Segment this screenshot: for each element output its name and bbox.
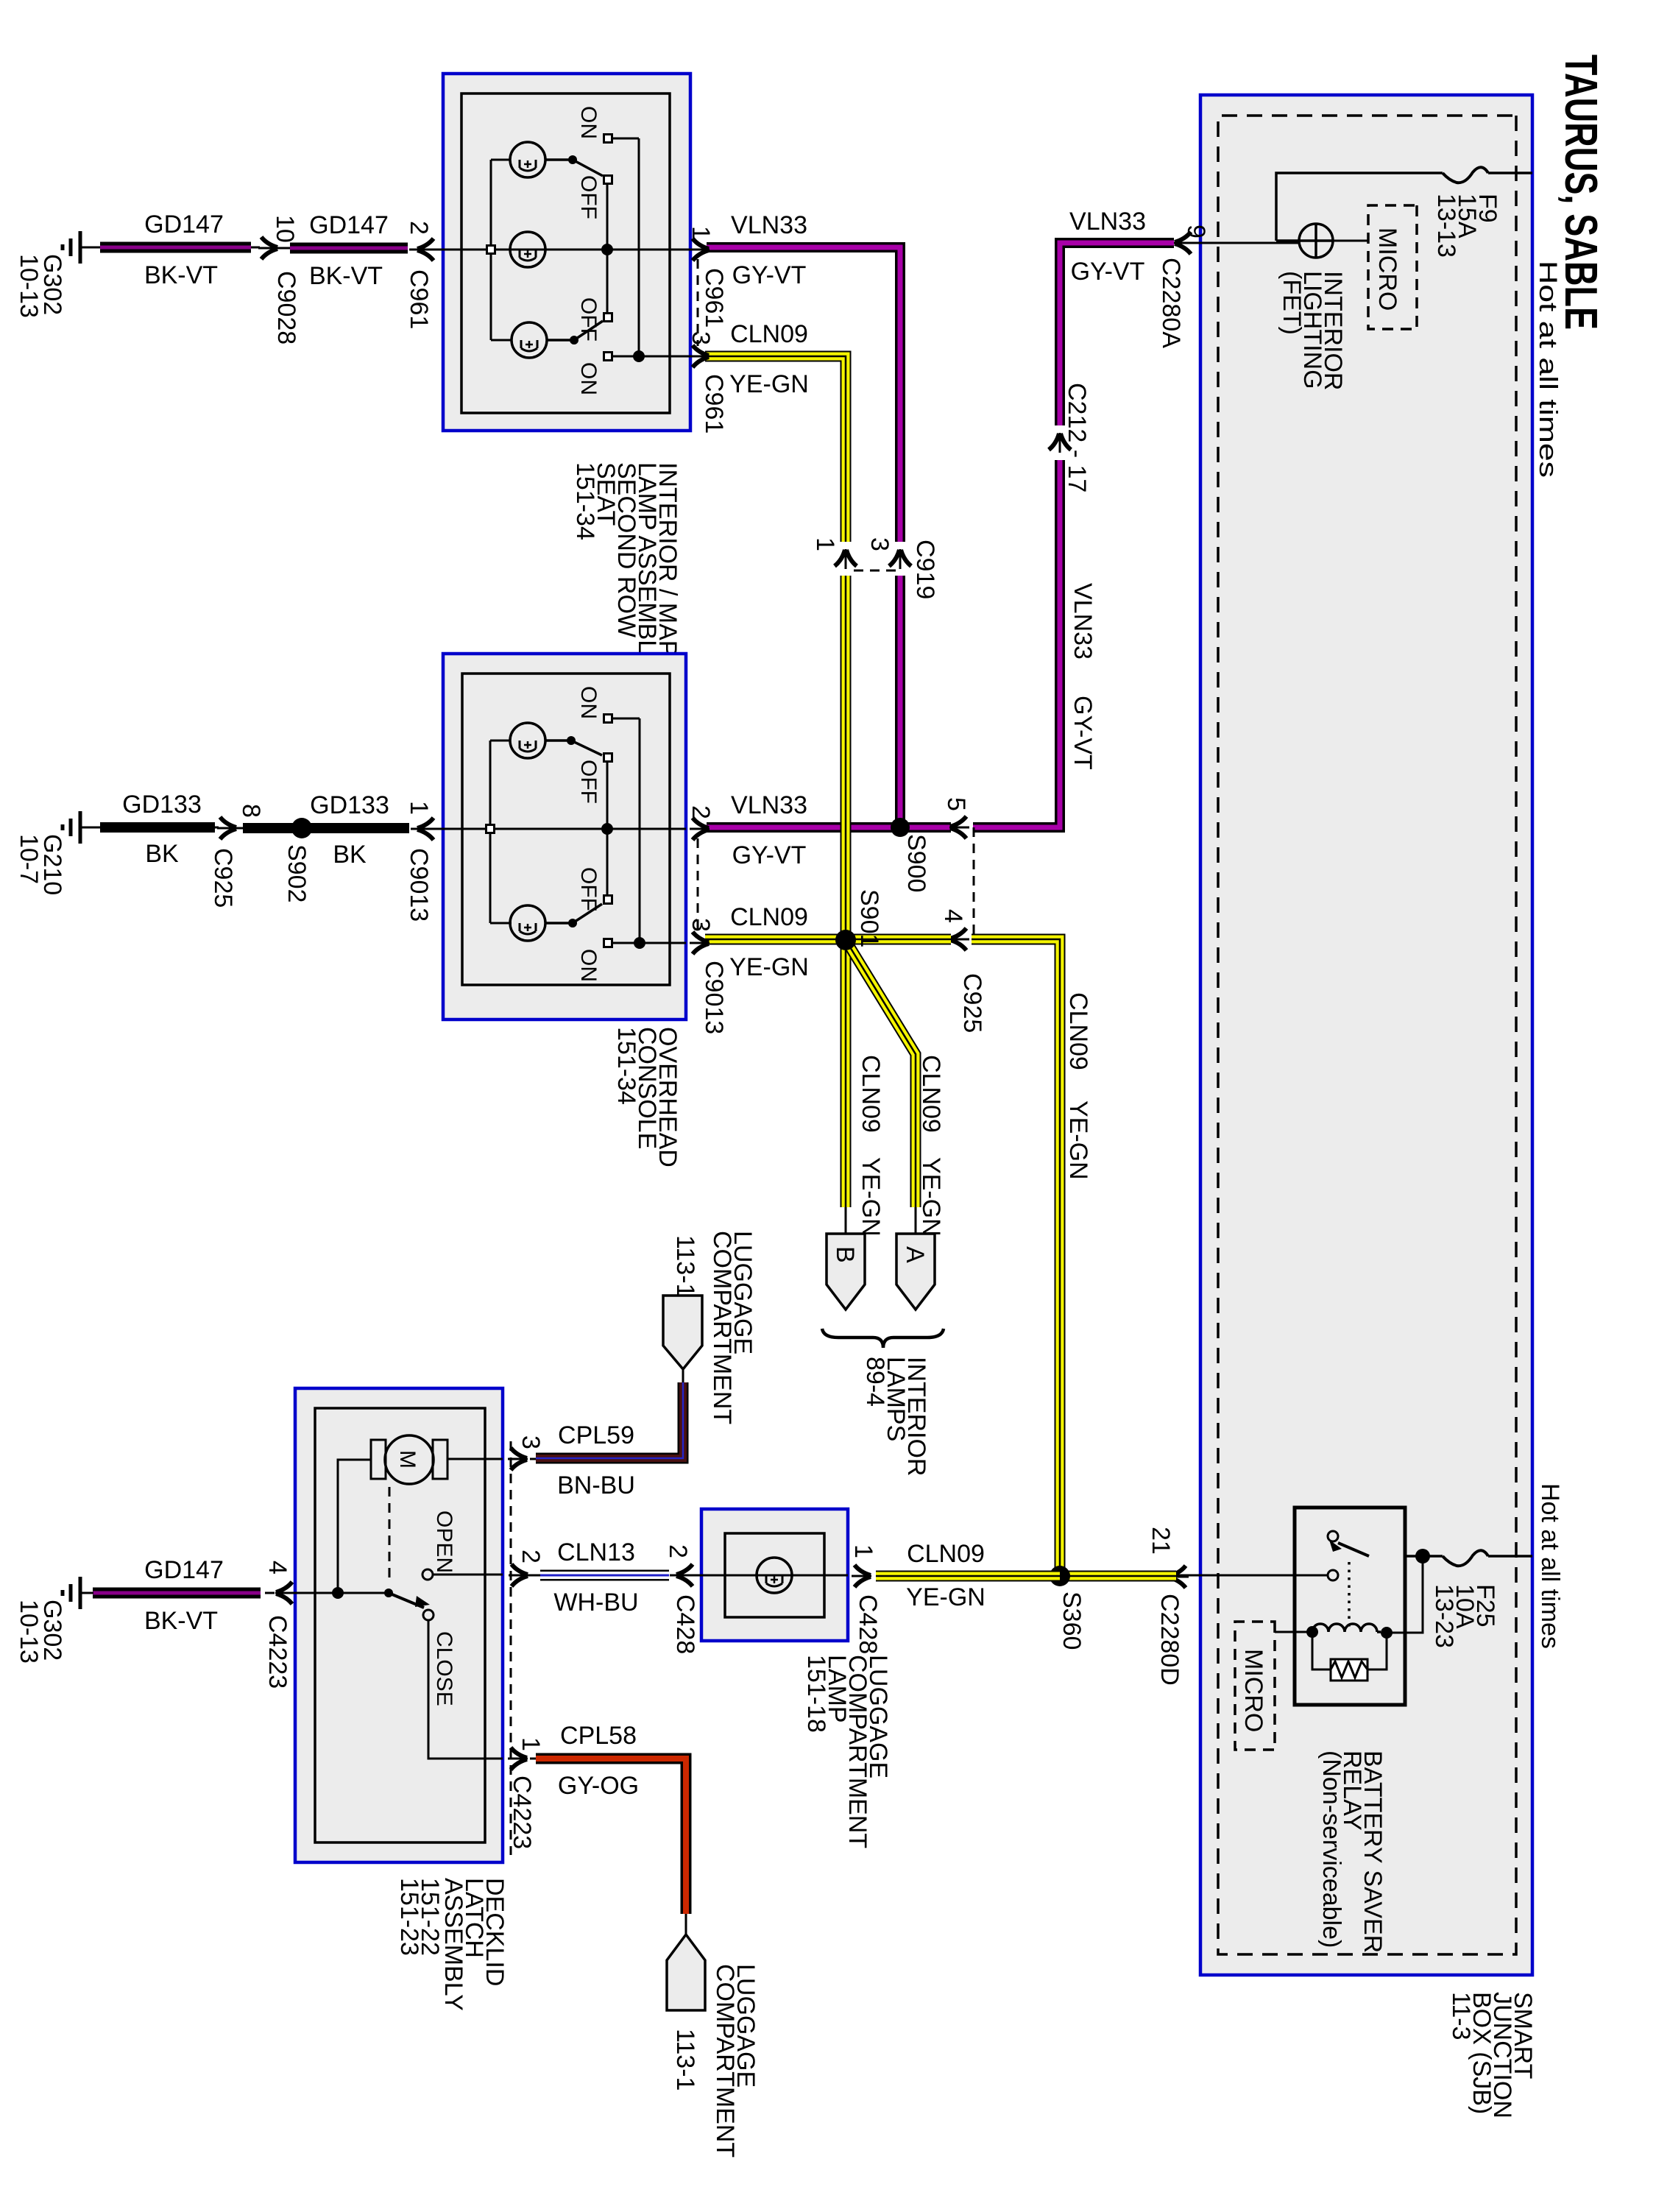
wire console off row [606,762,609,895]
fuse F9 element [1443,167,1488,183]
node pin3 bus dot [633,350,645,362]
wire CLN13 WH-BU luggage lamp to decklid [670,1575,701,1577]
wire relay output down to pin 21 [1176,1575,1328,1577]
svg-text:CPL59: CPL59 [558,1421,634,1449]
svg-text:9: 9 [1182,225,1210,238]
wire fuse junction to coil [1392,1556,1423,1633]
svg-text:MICRO: MICRO [1239,1649,1267,1732]
svg-text:GY-VT: GY-VT [732,261,807,289]
connector C9013 dashed link [697,838,699,933]
svg-text:CLN09: CLN09 [907,1540,985,1568]
svg-text:A: A [901,1246,929,1263]
svg-text:OFF: OFF [576,175,601,219]
resistor leads [1312,1632,1387,1669]
ground G302 [63,231,93,264]
svg-text:(Non-serviceable): (Non-serviceable) [1317,1750,1345,1948]
SJB inner dashed boundary [1218,116,1516,1954]
connector C428 pin 1 arrow [852,1565,871,1587]
wire coil to MICRO 2 [1275,1631,1312,1633]
connector C428 pin 2 arrow [676,1564,696,1586]
wire motor to pin 3 [447,1458,503,1460]
svg-text:M: M [395,1450,420,1469]
svg-text:1: 1 [811,537,839,551]
micro box 2 dashed [1235,1622,1275,1750]
luggage compartment lamp box [701,1509,848,1641]
svg-text:C428: C428 [854,1594,882,1654]
node off row mid dot [601,244,613,255]
op-amp U-FET interior lighting driver circle [1299,224,1333,258]
console bulb 2 [510,905,545,941]
svg-text:CLOSE: CLOSE [432,1631,456,1706]
svg-text:8: 8 [237,804,265,818]
svg-text:BK: BK [145,840,179,868]
wire lamp1 bulb bus [491,160,512,340]
connector C9013 pin 3 arrow [690,932,710,954]
luggage compartment pentagon (CPL59) [663,1296,702,1369]
lamp bulb 1 [510,142,545,177]
wire GD147 BK-VT decklid pin4 to ground [290,1592,295,1594]
wire F25 feed vertical [1369,1555,1532,1558]
connector C4223 pin 2 arrow [509,1564,528,1586]
wire lamp1 off row [606,184,609,313]
svg-text:1: 1 [687,226,715,240]
switch decklid wiper [384,1589,393,1597]
svg-text:C925: C925 [209,848,237,908]
svg-text:13-23: 13-23 [1430,1584,1458,1648]
svg-text:CPL58: CPL58 [560,1722,637,1750]
svg-text:S902: S902 [283,844,311,902]
svg-text:113-1: 113-1 [671,2029,699,2091]
switch lamp1 wiper 1 [545,160,603,176]
connector C961 pin 2 arrow [417,238,436,261]
svg-text:OFF: OFF [576,297,601,342]
connector C4223 pin 1 arrow [508,1748,528,1770]
svg-text:13-13: 13-13 [1432,194,1460,258]
wire lamp1 mid line pin1-pin2 [443,249,690,251]
svg-text:YE-GN: YE-GN [906,1583,986,1611]
svg-text:CLN09: CLN09 [1064,992,1092,1070]
wire CLN09 S901 diagonal branch to pentagon A [846,940,916,1207]
svg-text:10-13: 10-13 [15,254,43,318]
svg-text:11-3: 11-3 [1447,1992,1475,2040]
svg-text:151-18: 151-18 [802,1655,830,1733]
svg-text:10-7: 10-7 [15,834,43,884]
svg-text:21: 21 [1147,1527,1175,1555]
svg-text:C4223: C4223 [508,1775,536,1849]
wire FET to MICRO [1333,240,1368,242]
lamp bulb 2 [510,232,545,267]
wire F9 feed vertical [1276,173,1532,241]
svg-text:YE-GN: YE-GN [917,1157,945,1237]
svg-text:5: 5 [942,797,970,811]
svg-text:GD147: GD147 [309,211,389,239]
dashed motor-switch link [389,1487,391,1584]
svg-text:C4223: C4223 [263,1615,291,1689]
svg-text:CLN09: CLN09 [917,1055,945,1133]
svg-text:2: 2 [405,221,433,235]
wire luggage lamp through line [701,1575,848,1577]
svg-text:WH-BU: WH-BU [553,1589,638,1616]
motor M [385,1435,434,1484]
wire GD133 BK middle [243,823,294,833]
splice S901 [835,930,856,950]
svg-text:GD147: GD147 [144,1556,224,1584]
svg-text:OFF: OFF [576,867,601,911]
svg-text:CLN13: CLN13 [557,1538,635,1566]
splice S900 [891,818,910,837]
fuse F25 element [1443,1550,1488,1566]
svg-text:151-34: 151-34 [612,1027,640,1105]
wire lamp1 pin3 stub [639,356,690,358]
svg-text:ON: ON [576,106,601,139]
node fuse junction dot [1415,1549,1430,1563]
connector C4223 pin 3 arrow [508,1448,528,1470]
svg-text:CLN09: CLN09 [730,903,808,931]
connector C4223 dashed link [510,1441,512,1855]
switch CLOSE contact [423,1610,434,1620]
svg-text:C925: C925 [958,973,986,1033]
svg-text:C9028: C9028 [272,271,300,344]
connector C919 pin 1 arrow [835,549,857,569]
wire GD133 BK console pin1 [411,828,443,830]
wire VLN33 branch S900 to lamp pin 1 [895,576,905,827]
svg-text:BN-BU: BN-BU [557,1471,635,1499]
svg-text:151-23: 151-23 [395,1878,423,1956]
connector C925 pin 8 arrow [217,817,237,839]
lamp bulb 3 [512,322,547,358]
switch lamp1 wiper 2 [547,321,603,340]
wire motor lower lead [338,1460,371,1593]
svg-text:VLN33: VLN33 [1069,208,1146,236]
wire GD147 BK-VT long to ground [251,247,260,249]
switch decklid main line [295,1592,389,1594]
svg-text:1: 1 [405,801,433,815]
connector C925 pin 4 arrow [949,928,969,950]
svg-text:Hot at all times: Hot at all times [1534,261,1562,478]
svg-text:BK: BK [333,841,367,869]
svg-text:1: 1 [849,1544,877,1558]
svg-text:GY-VT: GY-VT [1069,696,1097,770]
connector C961 pin 3 arrow [690,345,710,367]
svg-text:YE-GN: YE-GN [1064,1100,1092,1180]
svg-text:BK-VT: BK-VT [144,261,218,289]
splice S902 [291,818,312,838]
svg-text:C212 - 17: C212 - 17 [1063,383,1091,492]
overhead console box [443,654,686,1020]
svg-text:S900: S900 [902,834,930,892]
switch console wiper 1 [545,741,602,755]
connector C2280A pin 9 arrow [1174,232,1194,254]
connector C9013 pin 1 arrow [417,818,436,840]
svg-text:COMPARTMENT: COMPARTMENT [711,1964,739,2158]
svg-text:C9013: C9013 [700,961,728,1034]
node console bus square [486,825,495,833]
svg-text:GD133: GD133 [310,791,389,819]
svg-text:C961: C961 [405,269,433,329]
wire VLN33 GY-VT purple: pin9 down, across, down to C925 pin5, S900, console pin 2 [1060,243,1174,425]
connector C925 pin 5 arrow [949,816,969,838]
wire console bulb bus [490,741,512,923]
wire console mid line pin2-pin1 [443,828,686,830]
decklid latch assembly box [295,1388,503,1862]
switch console wiper 2 [545,904,602,923]
connector A pentagon [896,1234,935,1310]
svg-text:S901: S901 [855,889,883,947]
svg-text:3: 3 [687,331,715,345]
svg-text:2: 2 [687,805,715,819]
svg-text:MICRO: MICRO [1373,227,1401,311]
connector B pentagon [827,1234,865,1310]
wire FET output to pin 9 [1179,242,1299,244]
svg-text:ON: ON [576,362,601,395]
wire CLN09 S360 down to luggage lamp pin 1 [876,1571,1060,1582]
svg-text:(FET): (FET) [1278,271,1306,335]
svg-text:VLN33: VLN33 [731,791,807,819]
wire CLN09 lamp1 pin3 horizontal to pentagon B [705,356,846,1207]
connector C9028 pin 10 arrow [258,237,278,259]
svg-text:C2280A: C2280A [1157,258,1185,348]
resistor (relay suppression) [1331,1659,1367,1681]
svg-text:89-4: 89-4 [861,1357,889,1407]
svg-text:3: 3 [866,537,894,551]
svg-text:113-1: 113-1 [671,1235,699,1297]
node console pin3 dot [634,937,645,949]
svg-text:C961: C961 [700,268,728,328]
svg-text:C2280D: C2280D [1156,1594,1183,1686]
wire GD147 BK-VT lamp1 pin2 segment [409,249,443,251]
svg-text:BK-VT: BK-VT [309,262,383,290]
svg-text:GD133: GD133 [122,791,202,819]
svg-text:4: 4 [263,1561,291,1575]
console bulb 1 [510,723,545,758]
relay switch wiper [1328,1531,1338,1541]
luggage compartment pentagon (CPL58) [667,1934,705,2010]
battery saver relay box [1295,1508,1405,1705]
ground G302 (decklid) [63,1577,93,1609]
svg-text:C919: C919 [911,540,939,599]
svg-text:OPEN: OPEN [432,1510,456,1573]
svg-text:BK-VT: BK-VT [144,1607,218,1635]
node motor junction dot [332,1587,344,1599]
svg-text:ON: ON [576,949,601,982]
svg-text:CLN09: CLN09 [857,1055,885,1133]
connector C919 dashed link [851,570,896,572]
wire CLN09 console pin3 to S901 [705,934,846,945]
svg-text:YE-GN: YE-GN [729,953,809,981]
svg-text:3: 3 [517,1435,545,1449]
svg-text:GY-VT: GY-VT [1071,258,1145,286]
svg-text:B: B [831,1246,859,1263]
wire CLN09 YE-GN yellow: C925 pin4 corner to S360 long run [846,934,951,945]
splice S360 [1050,1566,1070,1586]
wire lamp1 right bus [612,138,639,356]
smart junction box SJB outline [1200,95,1532,1975]
switch OPEN contact [422,1569,433,1580]
relay actuator dotted link [1348,1562,1351,1628]
svg-text:151-34: 151-34 [571,462,599,540]
switch lamp1 position squares [604,135,612,143]
connector C925 dashed link [973,827,975,939]
svg-text:VLN33: VLN33 [731,211,807,239]
wire CPL58 GY-OG pin1 right to pentagon [530,1758,536,1760]
svg-text:C961: C961 [700,374,728,434]
svg-text:GY-OG: GY-OG [558,1772,639,1800]
svg-text:10-13: 10-13 [15,1600,43,1664]
switch console position squares [604,715,612,723]
svg-text:GD147: GD147 [144,211,224,238]
svg-text:GY-VT: GY-VT [732,841,807,869]
svg-text:OFF: OFF [576,760,601,804]
interior/map lamp assembly box [443,74,690,431]
svg-text:C9013: C9013 [405,848,433,922]
svg-text:3: 3 [687,918,715,932]
svg-text:Hot at all times: Hot at all times [1536,1483,1564,1649]
connector C919 pin 3 arrow on VLN33 [889,549,911,569]
micro box 1 dashed [1368,205,1417,329]
svg-text:2: 2 [517,1550,545,1563]
node console off mid dot [601,823,613,835]
svg-text:ON: ON [576,686,601,719]
relay coil [1381,1627,1393,1639]
svg-text:COMPARTMENT: COMPARTMENT [708,1231,736,1424]
wire CPL59 BN-BU pin3 up to pentagon [530,1458,536,1460]
svg-text:YE-GN: YE-GN [857,1157,885,1237]
connector C212-17 inline arrow [1049,433,1071,453]
svg-text:10: 10 [271,215,299,243]
ground G210 [63,811,93,844]
node bus-mid square [487,246,495,254]
wire CLOSE to pin 1 [428,1620,503,1759]
connector C9013 pin 2 arrow [690,818,710,840]
svg-text:C428: C428 [671,1594,699,1654]
relay contact circle (output) [1328,1570,1338,1580]
wire GD133 BK to ground [215,827,219,829]
connector C4223 pin 4 arrow [275,1582,295,1604]
luggage lamp bulb [757,1558,792,1593]
wire console right bus [612,718,640,943]
connector C2280D pin 21 arrow [1169,1566,1189,1588]
svg-text:S360: S360 [1058,1591,1086,1650]
svg-text:CLN09: CLN09 [730,320,808,348]
connector C961 dashed link [697,259,699,346]
wire console pin3 stub [640,942,686,944]
connector C961 pin 1 arrow [690,238,710,261]
svg-text:2: 2 [664,1544,692,1558]
svg-text:1: 1 [517,1737,545,1751]
brace interior lamps [822,1329,944,1348]
svg-text:4: 4 [939,909,967,923]
svg-text:YE-GN: YE-GN [729,370,809,398]
svg-text:VLN33: VLN33 [1069,583,1097,660]
svg-text:TAURUS, SABLE: TAURUS, SABLE [1555,54,1606,330]
